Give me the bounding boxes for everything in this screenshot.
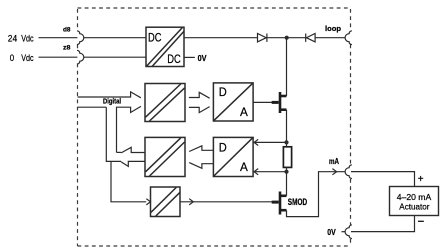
optocoupler O2 bbox=[145, 137, 185, 176]
svg-text:+: + bbox=[418, 174, 424, 185]
signal arrow O1 to D/A1 (lower) bbox=[189, 107, 210, 113]
D/A converter U2 bbox=[213, 83, 253, 121]
wire D1 to junction bbox=[267, 37, 287, 39]
svg-text:24: 24 bbox=[8, 34, 17, 44]
wire actuator minus to 0V terminal bbox=[351, 216, 415, 232]
wire resistor bottom bbox=[286, 167, 288, 171]
terminal d8 bbox=[77, 31, 84, 45]
svg-text:DC: DC bbox=[148, 30, 162, 44]
signal arrow D/A2 to O2 (lower) bbox=[189, 163, 213, 169]
actuator box bbox=[390, 187, 439, 216]
wire mA terminal to actuator plus bbox=[351, 172, 415, 187]
svg-text:D: D bbox=[219, 85, 227, 99]
label minus bbox=[418, 220, 424, 222]
diode D2 bbox=[306, 34, 315, 42]
wire DC/DC to diode D1 bbox=[184, 37, 258, 39]
wire 0V stub inside bbox=[342, 231, 346, 233]
diode D1 bbox=[258, 34, 267, 42]
svg-text:mA: mA bbox=[329, 156, 339, 166]
svg-text:D: D bbox=[219, 141, 227, 155]
terminal loop bbox=[345, 31, 352, 45]
svg-text:0V: 0V bbox=[327, 227, 336, 237]
arrowhead into optocoupler O3 bbox=[146, 199, 150, 205]
resistor R1 (sense) bbox=[283, 147, 291, 168]
svg-text:Vdc: Vdc bbox=[21, 34, 34, 44]
signal arrow from optocoupler O2 (upper) bbox=[121, 147, 144, 153]
wire sense bottom to D/A2 with arrowhead bbox=[254, 171, 287, 173]
junction dot (sense bottom) bbox=[284, 170, 288, 174]
wire link O2 return to O1 input and signal arrow into O1 (lower) bbox=[117, 106, 141, 152]
terminal mA bbox=[345, 165, 352, 179]
svg-text:z8: z8 bbox=[63, 45, 71, 52]
wire 0 Vdc input bbox=[39, 56, 78, 58]
wire d8 to DC/DC converter bbox=[84, 37, 146, 39]
wire branch to optocoupler O3 bbox=[111, 161, 146, 201]
svg-text:Vdc: Vdc bbox=[21, 53, 34, 63]
junction dot (sense top) bbox=[284, 140, 288, 144]
wire 24 Vdc input bbox=[39, 37, 78, 39]
dashed enclosure border bbox=[78, 8, 351, 246]
terminal z8 bbox=[77, 50, 84, 64]
junction dot (diode node) bbox=[285, 36, 289, 40]
wire D2 to loop terminal bbox=[315, 37, 345, 39]
svg-text:0V: 0V bbox=[198, 53, 207, 63]
transistor Q1 (FET) bbox=[272, 92, 287, 113]
wire DC/DC 0V stub bbox=[184, 56, 195, 58]
wire digital line 1 and signal arrow into optocoupler O1 (upper) bbox=[78, 92, 141, 98]
terminal 0V bbox=[345, 225, 352, 239]
svg-text:A: A bbox=[240, 105, 249, 119]
wire Q2 source to mA output bbox=[287, 172, 346, 217]
wire sense top to D/A2 with arrowhead bbox=[254, 141, 287, 143]
wire V1 foot to O2 arrow tip bbox=[117, 151, 122, 153]
wire O3 to Q2 gate bbox=[180, 201, 272, 203]
signal arrow from optocoupler O2 (lower) bbox=[121, 161, 145, 166]
wire junction to diode D2 bbox=[287, 37, 306, 39]
arrowhead O3 output bbox=[189, 199, 193, 205]
wire digital bus (lower) bbox=[78, 106, 107, 108]
arrowhead mA output bbox=[332, 169, 336, 175]
wire Q1 drain to diode junction bbox=[286, 38, 288, 96]
svg-text:DC: DC bbox=[167, 52, 181, 66]
wire branch to optocoupler O2 return bbox=[106, 107, 121, 161]
svg-text:d8: d8 bbox=[63, 27, 71, 34]
wire D/A1 to Q1 gate bbox=[253, 101, 272, 103]
svg-text:Digital: Digital bbox=[103, 98, 121, 105]
svg-text:0: 0 bbox=[10, 53, 14, 63]
D/A converter U3 bbox=[213, 137, 253, 176]
svg-text:A: A bbox=[240, 160, 249, 174]
svg-text:SMOD: SMOD bbox=[288, 197, 308, 207]
wire z8 to DC/DC converter bbox=[84, 56, 146, 58]
signal arrow D/A2 to O2 (upper) bbox=[189, 146, 213, 152]
transistor Q2 (SMOD switch) bbox=[272, 192, 287, 215]
optocoupler O3 bbox=[151, 187, 181, 217]
optocoupler O1 bbox=[145, 84, 185, 122]
wire Q1 source to sense junction bbox=[286, 110, 288, 147]
signal arrow O1 to D/A1 (upper) bbox=[189, 92, 210, 98]
wire sense bottom to Q2 drain bbox=[286, 172, 288, 196]
svg-text:loop: loop bbox=[325, 24, 341, 33]
DC/DC converter U1 bbox=[146, 27, 184, 66]
svg-text:Actuator: Actuator bbox=[399, 201, 429, 211]
